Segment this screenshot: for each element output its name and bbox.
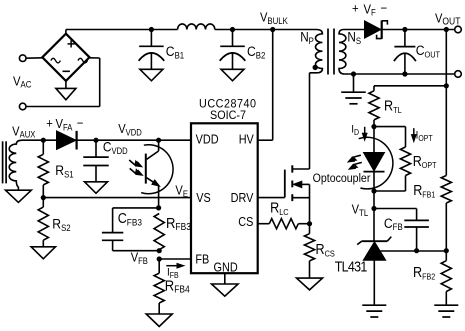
- svg-text:FB: FB: [195, 253, 209, 267]
- svg-text:DRV: DRV: [231, 192, 254, 206]
- svg-text:CB2: CB2: [247, 43, 266, 60]
- svg-text:Optocoupler: Optocoupler: [313, 173, 371, 186]
- svg-text:IOPT: IOPT: [416, 129, 433, 143]
- svg-text:VBULK: VBULK: [260, 10, 288, 26]
- svg-text:RFB3: RFB3: [166, 214, 191, 232]
- svg-text:ID: ID: [351, 123, 359, 137]
- svg-text:TL431: TL431: [335, 259, 367, 275]
- svg-text:VFA: VFA: [55, 116, 72, 132]
- svg-text:VF: VF: [364, 2, 376, 18]
- svg-text:CS: CS: [238, 215, 253, 229]
- svg-text:CFB: CFB: [384, 215, 403, 232]
- svg-text:CB1: CB1: [166, 43, 185, 60]
- svg-text:GND: GND: [214, 261, 238, 275]
- svg-text:VDD: VDD: [196, 133, 219, 147]
- svg-text:COUT: COUT: [416, 42, 441, 59]
- svg-text:RS1: RS1: [55, 162, 74, 179]
- svg-text:VFB: VFB: [131, 250, 149, 266]
- svg-text:HV: HV: [239, 133, 254, 147]
- svg-text:VTL: VTL: [352, 202, 369, 218]
- svg-text:RLC: RLC: [270, 200, 289, 217]
- svg-text:SOIC-7: SOIC-7: [210, 109, 246, 123]
- svg-text:NP: NP: [300, 30, 314, 46]
- svg-text:RFB2: RFB2: [413, 264, 435, 281]
- svg-text:NS: NS: [347, 30, 361, 46]
- svg-text:−: −: [77, 116, 84, 131]
- svg-text:CFB3: CFB3: [118, 210, 142, 227]
- svg-text:RFB1: RFB1: [413, 182, 435, 199]
- svg-text:RS2: RS2: [52, 216, 71, 233]
- svg-text:VAC: VAC: [13, 74, 31, 90]
- svg-text:VAUX: VAUX: [12, 124, 36, 140]
- svg-text:VOUT: VOUT: [435, 11, 461, 27]
- svg-text:RCS: RCS: [315, 241, 334, 258]
- svg-text:−: −: [381, 1, 388, 16]
- svg-text:VS: VS: [196, 192, 211, 206]
- svg-text:RTL: RTL: [384, 98, 402, 115]
- svg-text:VVDD: VVDD: [118, 121, 142, 137]
- svg-text:+: +: [352, 1, 359, 16]
- svg-text:ROPT: ROPT: [413, 153, 437, 170]
- svg-text:CVDD: CVDD: [103, 139, 128, 156]
- svg-text:VE: VE: [175, 183, 188, 199]
- svg-text:+: +: [46, 116, 53, 131]
